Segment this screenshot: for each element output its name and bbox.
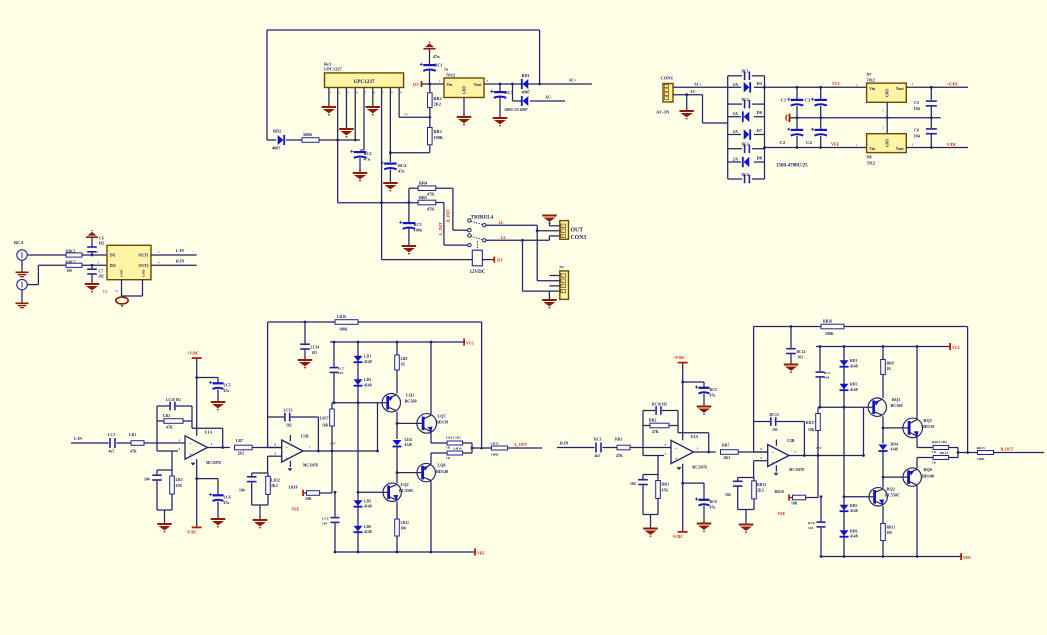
svg-text:102: 102 <box>772 428 778 432</box>
wire: LR10 to bias column <box>320 492 332 494</box>
svg-text:MC33078: MC33078 <box>789 468 804 472</box>
svg-text:100R: 100R <box>491 452 499 456</box>
ground at 7812 GND pin <box>463 98 465 117</box>
svg-text:RR1: RR1 <box>615 438 622 442</box>
svg-text:VEE: VEE <box>778 512 786 516</box>
svg-text:100K: 100K <box>339 327 348 331</box>
svg-text:104: 104 <box>725 493 731 497</box>
svg-text:100: 100 <box>401 526 407 530</box>
wire: U1B power stubs <box>289 435 291 441</box>
resistor RR14 <box>933 456 949 460</box>
relay actuator dotted link <box>476 242 478 251</box>
svg-text:RD5: RD5 <box>850 504 857 508</box>
wire: jack2 up to channel 2 line <box>27 284 38 286</box>
wire: AC- net row <box>513 100 522 102</box>
wire: RR1 to pin columns <box>319 139 360 141</box>
svg-text:2A: 2A <box>733 82 739 87</box>
svg-text:-V/DC: -V/DC <box>672 534 683 539</box>
svg-text:100U/25: 100U/25 <box>504 107 519 112</box>
UPC1237 pin 4 stub <box>354 88 356 96</box>
wire: AC- from CON1 <box>673 94 703 96</box>
svg-text:C2: C2 <box>780 140 786 145</box>
svg-text:VEE: VEE <box>831 141 840 146</box>
svg-text:VEE: VEE <box>963 556 971 560</box>
op-amp U1B MC33078 <box>282 440 303 462</box>
svg-text:100: 100 <box>887 531 893 535</box>
wire: to IC pin1 <box>82 254 107 256</box>
wire: VCC rail <box>816 346 950 348</box>
wire: VEE rail from bridge <box>765 147 867 149</box>
diode RD2 4148 <box>840 384 849 390</box>
flipped ground above C6 <box>86 230 98 238</box>
capacitor DC2 snubber <box>728 103 742 105</box>
svg-text:U2A: U2A <box>691 434 699 439</box>
svg-text:RC7: RC7 <box>824 371 831 375</box>
ground at LR3 network <box>157 509 172 511</box>
diode D6 2A <box>728 116 741 118</box>
svg-text:VCC: VCC <box>466 341 474 345</box>
svg-text:4007: 4007 <box>520 107 528 112</box>
svg-text:560K: 560K <box>303 132 313 137</box>
wire: top feedback rail R <box>754 326 821 328</box>
diode D8 2A <box>728 161 741 163</box>
resistor RR8 <box>881 360 886 375</box>
wire: RQ1 emitter column <box>882 416 884 441</box>
svg-text:LC5: LC5 <box>224 383 231 387</box>
wire: op-amp U2A output <box>694 451 716 453</box>
svg-text:D8: D8 <box>757 156 763 161</box>
svg-text:BC560: BC560 <box>405 399 417 404</box>
diode LD6 4148 <box>354 526 363 532</box>
svg-text:LQ1: LQ1 <box>406 392 414 397</box>
svg-text:R_OUT: R_OUT <box>1001 448 1014 452</box>
svg-text:Vout: Vout <box>474 83 482 87</box>
svg-text:RR2: RR2 <box>649 419 656 423</box>
svg-text:LC14: LC14 <box>311 345 320 349</box>
svg-text:D6: D6 <box>757 110 763 115</box>
power port VCC <box>949 343 951 350</box>
svg-text:47K: 47K <box>176 484 183 488</box>
wire: RQ5 base tap <box>882 427 885 430</box>
wire: lower base row to LQ2 <box>358 491 383 493</box>
wire: AC+ net at RD1 <box>538 83 541 86</box>
power port VEE <box>474 549 476 556</box>
svg-text:U2B: U2B <box>787 438 795 443</box>
svg-text:RD2: RD2 <box>850 383 857 387</box>
wire: 7812 ground pin <box>886 102 888 118</box>
svg-text:LQ6: LQ6 <box>438 463 446 468</box>
relay arm 2 <box>471 236 483 240</box>
svg-text:47K: 47K <box>166 426 173 430</box>
svg-text:CON3: CON3 <box>571 235 587 241</box>
svg-text:LC8: LC8 <box>322 516 329 520</box>
UPC1237 pin 6 stub <box>372 88 374 96</box>
svg-text:47u: 47u <box>224 389 231 393</box>
wire: VCC rail <box>330 341 464 343</box>
svg-text:VCC: VCC <box>952 346 960 350</box>
svg-text:104: 104 <box>630 482 636 486</box>
svg-text:RC8: RC8 <box>808 521 815 525</box>
ground under RC4 <box>389 170 391 183</box>
relay arm 1 <box>471 221 483 224</box>
wire: pin2/pin7 row to relay resistors <box>338 202 418 204</box>
capacitor DC3 snubber <box>728 148 742 150</box>
svg-text:Vout: Vout <box>896 87 904 91</box>
svg-text:5V: 5V <box>404 113 409 117</box>
wire: protection loop top <box>267 29 540 31</box>
net L_OUT output wire <box>508 447 542 449</box>
wire: U2B output to driver <box>789 455 864 457</box>
ground tick at center rail <box>786 114 790 122</box>
wire: UPC1237 pin 9 column <box>398 95 400 117</box>
svg-text:2K2: 2K2 <box>434 102 441 107</box>
wire: -V/DC output <box>906 147 968 149</box>
capacitor RC12 104 <box>738 477 754 479</box>
resistor LR12 2K2 <box>266 476 271 494</box>
wire: -V to op-amp U2A <box>682 464 684 531</box>
svg-text:4148: 4148 <box>850 535 858 539</box>
wire: bias column RR17 <box>817 407 819 413</box>
wire: link between diode rows <box>512 84 514 101</box>
resistor RR11 <box>882 506 884 524</box>
svg-text:12V: 12V <box>330 441 336 445</box>
svg-text:47u: 47u <box>224 501 231 505</box>
transistor RQ6 BD140 <box>903 468 921 486</box>
svg-text:100K: 100K <box>825 332 834 336</box>
diode LD5 4148 <box>354 500 363 506</box>
power port -V/DC at U1A <box>192 527 202 529</box>
svg-text:100R: 100R <box>977 457 985 461</box>
svg-text:4148: 4148 <box>850 364 858 368</box>
wire: pin9 row to RR2 bottom <box>399 116 430 118</box>
wire: LQ1 emitter column <box>396 412 398 437</box>
svg-text:RR4: RR4 <box>419 181 428 186</box>
svg-text:DC2: DC2 <box>742 98 749 102</box>
wire: LQ5 collector to VCC <box>430 342 432 414</box>
capacitor RC6 47u decoupling <box>681 482 684 485</box>
svg-text:RR15: RR15 <box>977 446 986 450</box>
svg-text:LR2: LR2 <box>163 414 170 418</box>
wire: U2B pin5 network <box>754 460 768 462</box>
svg-text:BC560: BC560 <box>891 403 903 408</box>
svg-text:−: − <box>772 451 775 456</box>
wire: protection loop right <box>539 30 541 84</box>
svg-text:1R: 1R <box>932 450 937 454</box>
svg-text:IN2: IN2 <box>110 264 116 268</box>
power port VEE at LR10 <box>302 490 304 496</box>
svg-text:Vin: Vin <box>869 147 876 151</box>
wire: contact bus down to CON4 <box>536 225 538 281</box>
capacitor RC14 103 <box>790 325 793 328</box>
wire: RR5 to NC contact <box>436 202 444 204</box>
ground under jack J2 <box>21 290 23 303</box>
transistor RQ2 BC550C <box>869 488 887 506</box>
svg-text:M1: M1 <box>560 265 565 269</box>
svg-text:102: 102 <box>98 274 104 278</box>
svg-text:R_INIT: R_INIT <box>447 209 451 222</box>
svg-text:DC4: DC4 <box>742 173 749 177</box>
svg-text:U1A: U1A <box>205 430 213 435</box>
svg-text:104: 104 <box>338 371 343 375</box>
ground at U1B pin5 network <box>252 504 268 506</box>
diode D5 2A <box>728 86 741 88</box>
svg-text:C3: C3 <box>805 98 811 103</box>
svg-text:C6: C6 <box>99 237 104 241</box>
IC U1 input stage <box>107 245 151 279</box>
wire: jack1 to filter <box>27 254 66 256</box>
diode RD4 4148 <box>879 445 888 451</box>
svg-text:1K: 1K <box>401 362 406 366</box>
svg-text:RR3: RR3 <box>434 129 442 134</box>
svg-text:104: 104 <box>914 133 921 138</box>
svg-text:L_INIT: L_INIT <box>439 222 443 235</box>
wire: driver input column <box>863 407 865 455</box>
earth oval ground at U1 <box>116 297 128 304</box>
wire: to IC pin3 <box>82 264 107 266</box>
svg-text:12V: 12V <box>413 83 420 87</box>
svg-text:Vout: Vout <box>896 147 904 151</box>
svg-text:LR3: LR3 <box>176 478 183 482</box>
transistor LQ2 BC550C <box>383 483 401 501</box>
wire: IC ground pins <box>121 280 123 296</box>
svg-text:C5: C5 <box>914 100 919 105</box>
svg-text:C1: C1 <box>781 98 787 103</box>
svg-text:BD139: BD139 <box>922 424 934 429</box>
ground at CON1 <box>685 93 688 96</box>
capacitor DC4 snubber <box>728 178 742 180</box>
wire: feedback loop R <box>642 411 644 456</box>
svg-text:47u: 47u <box>710 393 717 397</box>
svg-text:VCC: VCC <box>832 81 841 86</box>
transistor LQ1 BC560 <box>382 394 400 412</box>
svg-text:GND: GND <box>120 269 124 277</box>
svg-text:LD1: LD1 <box>364 355 371 359</box>
op-amp U1A MC33078 <box>185 436 208 459</box>
capacitor RC5 47u decoupling <box>681 381 684 384</box>
wire: UPC1237 pin 2 column <box>337 95 339 203</box>
transistor LQ6 BD140 <box>417 463 435 481</box>
svg-text:LC7: LC7 <box>338 366 345 370</box>
wire: diode bias column <box>843 347 845 557</box>
wire: LQ6 emitter to LR14 <box>430 453 432 464</box>
svg-text:47K: 47K <box>662 488 669 492</box>
svg-text:4148: 4148 <box>891 448 898 452</box>
svg-text:47K: 47K <box>652 430 659 434</box>
wire: +V to op-amp U1A <box>196 359 198 436</box>
resistor RR1 47K <box>603 447 618 449</box>
op-amp U2B MC33078 <box>768 445 789 467</box>
wire: output feedback riser <box>481 322 483 448</box>
diode RD6 4148 <box>840 530 849 536</box>
wire: feedback loop L <box>156 406 158 451</box>
svg-text:2A: 2A <box>733 129 739 134</box>
resistor LR14 <box>447 451 463 455</box>
svg-text:L-IN: L-IN <box>176 249 184 253</box>
wire: arm2 to CON3 pin3 <box>548 236 550 240</box>
svg-text:LR15: LR15 <box>491 442 499 446</box>
wire: U1B feedback loop <box>267 417 269 448</box>
ground under RC3 <box>499 98 501 118</box>
svg-text:12V: 12V <box>816 446 822 450</box>
wire: RR10 to bias column <box>806 497 818 499</box>
wire: VCC rail from bridge <box>765 86 867 88</box>
svg-text:7812: 7812 <box>867 77 875 82</box>
svg-text:RC5: RC5 <box>710 388 717 392</box>
svg-text:GND: GND <box>885 139 889 147</box>
svg-text:LD5: LD5 <box>364 499 371 503</box>
capacitor C7 102 at line2 <box>91 265 93 268</box>
svg-text:103: 103 <box>312 351 318 355</box>
svg-text:U1: U1 <box>103 290 108 294</box>
wire: diode bias column <box>357 342 359 552</box>
resistor LR15 <box>472 447 492 449</box>
svg-text:LD2: LD2 <box>364 378 371 382</box>
svg-text:+: + <box>189 453 192 458</box>
wire: LQ5 emitter to LR13 <box>430 433 432 443</box>
svg-text:AC-IN: AC-IN <box>656 110 670 115</box>
ground under jack J1 <box>21 260 23 271</box>
wire: op-amp U1A output <box>208 447 230 449</box>
wire: VEE rail <box>336 551 475 553</box>
svg-text:-V/DC: -V/DC <box>186 530 197 535</box>
svg-text:MC33078: MC33078 <box>303 464 318 468</box>
ground under RC2 <box>359 158 361 172</box>
svg-text:RD2: RD2 <box>273 129 281 134</box>
svg-text:-V/DC: -V/DC <box>946 142 957 147</box>
wire: RQ5 emitter to RR13 <box>916 437 918 447</box>
ground under RC6 <box>703 506 705 523</box>
svg-text:Re1: Re1 <box>324 61 331 66</box>
wire: UPC1237 pin 5 column <box>363 95 365 150</box>
wire: U1B pin5 network <box>268 455 282 457</box>
ground at CON3 pin1 <box>542 215 557 224</box>
ground at UPC1237 pin 6 <box>372 95 374 106</box>
transistor RQ5 BD139 <box>903 418 923 438</box>
svg-text:OUT1: OUT1 <box>138 254 148 258</box>
wire: LQ6 collector to VEE <box>430 481 432 552</box>
svg-text:LR7: LR7 <box>236 439 243 443</box>
svg-text:LC10 102: LC10 102 <box>166 398 181 402</box>
wire: bridge right column <box>764 76 766 179</box>
svg-text:GND: GND <box>142 269 146 277</box>
resistor RR12 2K2 <box>752 481 757 499</box>
svg-text:Vin: Vin <box>447 83 454 87</box>
ground at UPC1237 pin 1 <box>328 95 330 106</box>
svg-text:47u: 47u <box>364 156 371 161</box>
svg-text:1R: 1R <box>446 446 451 450</box>
svg-text:104: 104 <box>144 477 150 481</box>
relay coil 12VDC <box>472 250 482 266</box>
wire: -V to op-amp U1A <box>196 459 198 526</box>
svg-text:LR16: LR16 <box>337 315 346 319</box>
wire: bridge left column <box>727 76 729 179</box>
svg-text:RC10 102: RC10 102 <box>652 403 667 407</box>
svg-text:LR14: LR14 <box>454 447 462 451</box>
svg-text:RR16: RR16 <box>823 320 832 324</box>
svg-text:10K: 10K <box>305 497 312 501</box>
capacitor RC2 104 <box>643 474 658 476</box>
wire: CON4 pin1 stub <box>549 275 559 277</box>
resistor RR2 2K2 <box>429 84 431 93</box>
diode LD4 4148 <box>393 440 402 446</box>
op-amp U2A MC33078 <box>671 440 694 463</box>
wire: RQ6 collector to VEE <box>916 486 918 557</box>
svg-text:OUT2: OUT2 <box>138 264 148 268</box>
wire: 7912 ground pin <box>886 118 888 134</box>
capacitor RC4 47u <box>390 152 429 154</box>
wire: U2B power stubs <box>775 440 777 446</box>
svg-text:RR14: RR14 <box>940 451 949 455</box>
svg-text:LC13: LC13 <box>284 408 293 412</box>
wire: 7812 output row <box>484 83 592 85</box>
svg-text:LQ2: LQ2 <box>401 482 409 487</box>
svg-text:BC550C: BC550C <box>885 493 900 498</box>
svg-text:OUT: OUT <box>571 228 584 234</box>
svg-text:104: 104 <box>322 522 327 526</box>
svg-text:UPC1237: UPC1237 <box>353 79 374 85</box>
svg-text:2A: 2A <box>733 111 739 116</box>
svg-text:BD139: BD139 <box>436 420 448 425</box>
svg-text:103: 103 <box>798 355 804 359</box>
UPC1237 pin 7 stub <box>381 88 383 96</box>
UPC1237 pin 2 stub <box>337 88 339 96</box>
svg-text:104: 104 <box>239 488 245 492</box>
wire: VEE rail <box>822 556 961 558</box>
svg-text:100u: 100u <box>414 227 423 232</box>
svg-text:104: 104 <box>914 106 921 111</box>
svg-text:12VDC: 12VDC <box>470 270 486 275</box>
svg-text:BC550C: BC550C <box>399 488 414 493</box>
UPC1237 pin 8 stub <box>389 88 391 96</box>
wire: RR7 to U2B <box>738 451 768 453</box>
svg-text:LR1: LR1 <box>129 433 136 437</box>
capacitor RC1 1u <box>429 50 431 65</box>
svg-text:4007: 4007 <box>522 90 530 95</box>
UPC1237 pin 3 stub <box>345 88 347 96</box>
wire: arm2 bus down to CON4 pin4 <box>522 240 524 291</box>
svg-text:RC6: RC6 <box>710 500 717 504</box>
svg-text:104: 104 <box>824 376 829 380</box>
svg-text:RC1: RC1 <box>435 63 443 68</box>
svg-text:MC33078: MC33078 <box>206 461 221 465</box>
wire: UPC1237 pin 8 column <box>389 95 391 153</box>
svg-text:2K2: 2K2 <box>724 456 731 460</box>
svg-text:1500-4700U/25: 1500-4700U/25 <box>776 164 808 169</box>
svg-text:+: + <box>675 458 678 463</box>
svg-text:R-IN: R-IN <box>560 442 568 446</box>
svg-text:RQ1: RQ1 <box>892 397 900 402</box>
svg-text:RR8: RR8 <box>887 362 894 366</box>
wire: OUT1 net L-IN <box>151 254 197 256</box>
svg-text:RQ6: RQ6 <box>924 467 932 472</box>
svg-text:RR12: RR12 <box>757 483 766 487</box>
svg-text:−: − <box>189 443 192 448</box>
wire: protection loop left <box>266 30 268 140</box>
power port VEE at RR10 <box>788 495 790 501</box>
svg-text:AC-: AC- <box>690 90 697 94</box>
wire: LR1 to op-amp <box>144 442 185 444</box>
power port VCC <box>463 339 465 346</box>
wire: RR1 to op-amp <box>630 447 671 449</box>
ground under C7 <box>85 283 100 292</box>
wire: U1A pin2 to gain network <box>171 451 173 470</box>
wire: RQ6 base tap <box>882 476 885 479</box>
svg-text:4u7: 4u7 <box>595 454 601 458</box>
wire: emitter resistors to output node <box>949 447 958 449</box>
svg-text:AC+: AC+ <box>569 78 578 83</box>
ground under RC5 <box>408 229 410 246</box>
RCA jack J1 <box>17 250 27 260</box>
